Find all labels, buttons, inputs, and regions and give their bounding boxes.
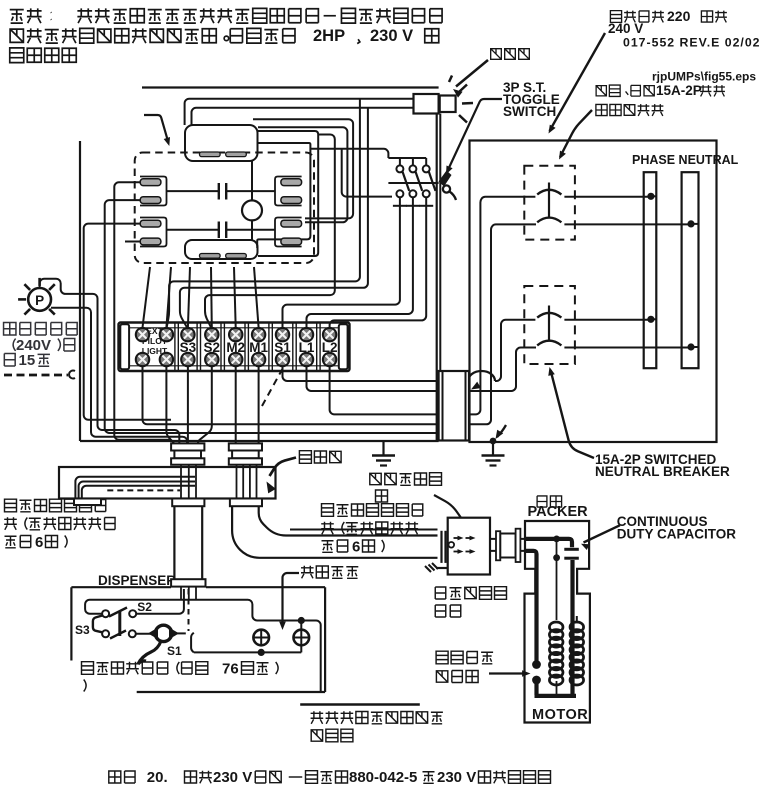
wire EXT1 bottom <box>143 224 537 424</box>
contactor loop inner <box>257 143 310 248</box>
solenoid S1 <box>138 625 179 664</box>
wire bundle c4 <box>310 149 388 158</box>
wire EXT2 bottom <box>166 366 174 445</box>
wire junction to packer 1 <box>490 538 525 540</box>
conduit B wires inside <box>237 465 257 500</box>
load center box <box>470 141 717 443</box>
external pilot light P <box>18 278 55 315</box>
dispenser light leader arrow <box>279 573 299 630</box>
contact housing right upper <box>275 177 302 206</box>
svg-text:15: 15 <box>19 352 36 369</box>
load center leader arrow 1 <box>549 33 606 134</box>
breaker 1 dashed box <box>524 166 575 240</box>
junction dot 1 <box>553 536 560 543</box>
wire lamp drop 1 <box>166 99 360 329</box>
contactor coil loop top <box>185 125 258 161</box>
bus bar NEUTRAL <box>682 172 699 368</box>
switch S2 <box>109 608 136 639</box>
wire contactor to terminal 6 <box>254 267 259 328</box>
load center leader arrow 2 <box>559 110 592 160</box>
optional dispensers label left <box>4 499 115 551</box>
contactor dashed enclosure <box>135 153 314 264</box>
optional dispensers label right <box>321 504 423 556</box>
svg-text:DUTY CAPACITOR: DUTY CAPACITOR <box>617 527 737 542</box>
conduit A wires into dispenser <box>181 587 196 599</box>
wire switch drop 1 <box>283 206 400 329</box>
dispenser box <box>71 587 325 692</box>
packer label cjk <box>537 496 547 507</box>
wireway exit lip <box>74 499 101 506</box>
conduit B elbow inner <box>259 506 438 535</box>
motor lead top <box>525 539 572 547</box>
svg-text:220: 220 <box>667 8 691 24</box>
junction box collar left <box>442 531 446 563</box>
caption <box>109 769 551 786</box>
wire contactor to terminal 4 <box>210 267 213 328</box>
junction box strain relief <box>425 563 448 572</box>
grommet interlock label <box>370 473 442 502</box>
svg-text:PACKER: PACKER <box>528 504 589 520</box>
wire contactor to terminal 3 <box>188 267 190 328</box>
wire tab left 2 <box>105 200 438 433</box>
contact housing left lower <box>140 218 167 247</box>
wire bundle c3 <box>205 135 335 330</box>
contact tab left 4 <box>140 238 161 245</box>
ground symbol 1 <box>372 441 395 466</box>
interlock dashed link <box>262 366 284 406</box>
dispenser lamp 1 <box>253 630 269 646</box>
conduit A collars top <box>171 443 204 450</box>
ground note line <box>300 703 420 706</box>
wire switch drop 2 <box>307 206 413 329</box>
solenoid valve label <box>82 661 279 692</box>
contact tab left 1 <box>140 179 161 186</box>
contact tab right 1 <box>281 179 302 186</box>
toggle switch label <box>503 80 560 119</box>
contactor leader arrow <box>144 115 170 146</box>
svg-text:76: 76 <box>222 661 239 678</box>
monitor light label <box>491 49 502 60</box>
wireway label <box>299 451 311 464</box>
terminal strip body <box>119 323 350 372</box>
monitor light <box>414 76 474 123</box>
junction box <box>448 518 490 575</box>
breaker 1 linkage <box>548 183 550 217</box>
motor winding left <box>549 622 563 685</box>
svg-text:S2: S2 <box>137 600 152 614</box>
ground junction arrow <box>496 425 507 439</box>
breaker name label <box>595 452 730 479</box>
svg-text:S1: S1 <box>167 644 182 658</box>
conduit B elbow outer <box>232 506 437 558</box>
svg-text:SWITCH: SWITCH <box>503 104 556 119</box>
wire contactor to terminal 2 <box>166 267 171 328</box>
svg-text:S3: S3 <box>75 623 90 637</box>
toggle switch 3P S.T. <box>393 158 436 206</box>
ground symbol 2 <box>482 438 505 466</box>
lamp junction dots <box>258 617 305 656</box>
contact tab right 2 <box>281 197 302 204</box>
capacitor C1 <box>167 183 276 200</box>
contact housing left upper <box>140 177 167 206</box>
svg-text:230 V: 230 V <box>213 769 252 786</box>
contact pad 4 <box>226 254 247 259</box>
breaker 2 pole A <box>537 313 656 323</box>
wire tab left 4 <box>125 241 140 243</box>
wire S2 bottom <box>198 366 212 445</box>
switch S3 <box>93 610 109 637</box>
conduit A barrel <box>174 506 202 579</box>
motor lead bottom <box>535 694 577 698</box>
breaker 2 pole B <box>537 341 698 351</box>
run capacitor <box>564 549 579 558</box>
external pilot light label <box>4 323 78 369</box>
svg-text:NEUTRAL BREAKER: NEUTRAL BREAKER <box>595 464 730 479</box>
conduit B collar bottom <box>230 499 262 507</box>
breaker 1 pole B <box>537 218 698 228</box>
wire S1 bottom <box>283 320 536 381</box>
packer and motor casing <box>525 521 590 723</box>
junction dot 2 <box>553 554 560 561</box>
wire S3 bottom <box>187 366 189 445</box>
wireway wire 2 <box>79 482 195 499</box>
terminal screws <box>136 328 336 366</box>
toggle leader arrow <box>446 99 502 175</box>
wire bundle c2 <box>258 127 347 222</box>
contact tab right 4 <box>281 238 302 245</box>
contact pad 2 <box>226 152 247 157</box>
dispenser lamp wire <box>191 633 301 653</box>
svg-text:6: 6 <box>352 539 360 556</box>
contact housing right lower <box>275 218 302 247</box>
contact tab right 3 <box>281 220 302 227</box>
svg-text:rjpUMPs\fig55.eps: rjpUMPs\fig55.eps <box>652 70 756 84</box>
conduit B collars top <box>229 443 262 450</box>
contact tab left 2 <box>140 197 161 204</box>
bus bar PHASE <box>644 172 657 368</box>
center tap wire <box>556 538 558 696</box>
wireway box <box>59 467 276 499</box>
control box <box>80 88 440 442</box>
svg-text:PHASE NEUTRAL: PHASE NEUTRAL <box>632 153 739 167</box>
wire bundle c4b <box>342 149 392 197</box>
motor lead left <box>525 551 537 695</box>
wire M1 bottom <box>258 366 260 445</box>
contactor loop outer <box>258 131 319 256</box>
breaker 2 linkage <box>548 306 550 340</box>
wire lamp drop 2 <box>180 108 368 329</box>
breaker leader arrow <box>548 367 594 458</box>
ground note label <box>311 711 443 742</box>
contact tab left 3 <box>140 220 161 227</box>
wire lamp feed 2 <box>192 108 414 125</box>
wire tab left 3 <box>84 224 171 420</box>
conduit A collar bottom <box>172 499 204 507</box>
wire L2 bottom <box>330 197 536 415</box>
right coil stub <box>576 616 578 623</box>
conduit A collar dispenser <box>171 579 205 586</box>
contact pad 3 <box>200 254 221 259</box>
monitor light leader arrow <box>453 60 488 98</box>
wire switch drop 3 <box>330 206 427 329</box>
wire junction to packer 2 <box>490 550 525 552</box>
svg-text:MOTOR: MOTOR <box>532 707 588 723</box>
note text block <box>10 8 442 62</box>
wire lamp feed 1 <box>185 99 414 125</box>
svg-text:017-552 REV.E 02/02: 017-552 REV.E 02/02 <box>623 36 761 50</box>
wire switch mid bus <box>388 182 438 184</box>
wire contactor to terminal 5 <box>234 267 236 328</box>
capacitor label <box>617 514 737 542</box>
contactor coil loop bottom <box>185 240 258 259</box>
capacitor C2 <box>167 222 276 239</box>
motor lead right <box>570 560 574 694</box>
svg-text:230 V: 230 V <box>370 27 413 45</box>
conduit A wires inside <box>181 465 196 499</box>
wireway leader arrow <box>267 458 297 494</box>
overload protector <box>532 660 541 684</box>
wire S2 to top <box>136 589 184 614</box>
wire solenoid dashed <box>171 589 189 633</box>
dashed spec mark <box>4 370 75 378</box>
wire optional dispenser right <box>290 529 438 531</box>
svg-text:880-042-5: 880-042-5 <box>349 769 417 786</box>
contact pad 1 <box>200 152 221 157</box>
svg-text:230 V: 230 V <box>437 769 476 786</box>
svg-text:DISPENSER: DISPENSER <box>98 573 176 588</box>
dispenser lamp 2 <box>294 630 310 646</box>
wire L1 bottom <box>307 348 537 392</box>
breaker 2 dashed box <box>524 286 575 364</box>
wireway wire 1 <box>75 477 195 498</box>
motor winding right <box>570 622 584 685</box>
svg-text:15A-2P: 15A-2P <box>656 83 702 98</box>
junction leader line <box>434 495 464 522</box>
breaker type label <box>596 83 725 116</box>
svg-text:240 V: 240 V <box>608 21 643 36</box>
overload leader arrow <box>489 670 531 677</box>
wire contactor to terminal 1 <box>143 267 151 328</box>
dispenser light label <box>301 566 314 579</box>
wire solenoid rail <box>136 633 155 635</box>
capacitor leader arrow <box>581 525 620 550</box>
terminal EXT PILOT LIGHT label <box>142 326 168 356</box>
wireway dashed wire <box>107 489 180 491</box>
packer connector <box>496 529 520 562</box>
junction box plug contacts <box>449 536 476 554</box>
toggle lever <box>439 171 457 201</box>
svg-text:6: 6 <box>35 534 43 551</box>
pilot wire lower <box>51 308 187 444</box>
contactor coil <box>242 161 262 240</box>
wire hop arrow <box>468 371 495 389</box>
dispenser top rail <box>85 600 321 692</box>
wire bundle c1 <box>253 119 353 218</box>
overload protector label <box>436 651 493 682</box>
load center label <box>608 8 727 36</box>
svg-text:20.: 20. <box>147 769 168 786</box>
wire M2 bottom <box>235 366 237 445</box>
wire switch bus top <box>388 157 426 159</box>
breaker 1 pole A <box>537 190 656 200</box>
wire tab left 1 <box>114 182 171 440</box>
wireway wire 3 <box>82 486 195 498</box>
svg-text:2HP: 2HP <box>313 27 345 45</box>
svg-text:P: P <box>35 293 44 308</box>
load center connector <box>439 371 469 441</box>
junction box label <box>435 587 506 617</box>
pilot wire upper <box>40 279 180 444</box>
